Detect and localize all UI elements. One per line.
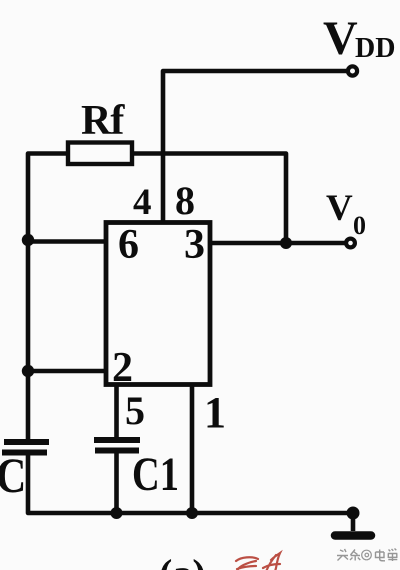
svg-text:C: C xyxy=(0,448,26,503)
watermark xyxy=(337,549,397,562)
wire left rail middle xyxy=(26,240,31,371)
label V0 xyxy=(326,188,366,240)
label C xyxy=(0,448,26,503)
wire pin 2 xyxy=(28,369,105,374)
red annotation xyxy=(236,553,280,570)
capacitor C xyxy=(2,442,49,453)
wire left rail lower to capacitor C xyxy=(26,371,31,439)
svg-text:4: 4 xyxy=(133,182,152,223)
label Rf xyxy=(81,98,125,144)
svg-text:2: 2 xyxy=(112,345,133,391)
svg-text:V: V xyxy=(323,12,358,65)
resistor Rf xyxy=(68,143,132,165)
terminal VDD xyxy=(348,66,357,75)
svg-text:(a): (a) xyxy=(159,551,206,570)
wire pin 5 stub xyxy=(114,385,119,437)
wire Rf left to left rail xyxy=(28,154,68,241)
svg-text:6: 6 xyxy=(118,222,139,268)
node pin1 ground junction xyxy=(186,507,198,519)
svg-text:C1: C1 xyxy=(132,448,179,501)
ground xyxy=(335,507,371,536)
node pin6 junction xyxy=(22,234,34,246)
svg-text:1: 1 xyxy=(204,388,226,437)
wire pin 3 to output node xyxy=(210,241,286,246)
svg-text:8: 8 xyxy=(175,178,195,223)
caption (a) xyxy=(159,551,206,570)
svg-text:V: V xyxy=(326,188,353,229)
svg-text:DD: DD xyxy=(355,33,395,64)
svg-text:0: 0 xyxy=(353,211,366,240)
pin label 2 xyxy=(112,345,133,391)
wire pin 6 xyxy=(28,239,105,244)
label VDD xyxy=(323,12,395,65)
wire VDD rail: corner at (162,71) down to IC pin 4/8 xyxy=(163,71,348,222)
op-amp U1 (555 timer IC body) xyxy=(106,223,210,385)
wire ground rail bottom xyxy=(117,511,354,516)
wire pin 1 down xyxy=(190,385,195,513)
pin label 5 xyxy=(125,388,145,433)
node C1 ground junction xyxy=(111,507,123,519)
label C1 xyxy=(132,448,179,501)
svg-text:3: 3 xyxy=(184,222,205,268)
pin label 4 xyxy=(133,182,152,223)
pin label 8 xyxy=(175,178,195,223)
terminal V0 xyxy=(346,239,355,248)
wire C bottom to ground rail xyxy=(28,455,117,513)
svg-text:5: 5 xyxy=(125,388,145,433)
svg-text:Rf: Rf xyxy=(81,98,125,144)
capacitor C1 xyxy=(94,440,140,451)
wire Rf right to node at pin 3 xyxy=(132,154,286,244)
node output junction xyxy=(280,237,292,249)
pin label 1 xyxy=(204,388,226,437)
node pin2 junction xyxy=(22,365,34,377)
pin label 3 xyxy=(184,222,205,268)
wire output node to terminal V0 xyxy=(286,241,346,246)
pin label 6 xyxy=(118,222,139,268)
wire C1 bottom to ground rail xyxy=(114,453,119,513)
